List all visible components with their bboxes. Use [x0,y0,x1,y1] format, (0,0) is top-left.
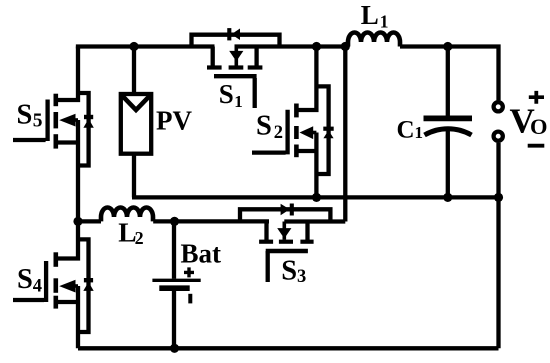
transistor S1 (with bypass diode) [192,28,280,108]
D5 cathode bar [84,115,93,119]
S4 body arrow [73,284,78,288]
svg-text:S: S [281,255,297,286]
S4 gate bar [44,261,48,302]
svg-text:3: 3 [297,267,306,287]
Bat negative plate [159,285,189,291]
S2 body arrow [312,131,316,135]
diode D4 (body diode of S4) [78,239,94,332]
S2 drain lead [297,47,317,111]
S5 body arrow [73,118,78,122]
svg-text:4: 4 [33,276,42,296]
Vo plus terminal [494,102,503,111]
Bat positive plate [152,279,200,282]
Bat minus tick [188,294,192,304]
S3 body connector wire [284,219,345,223]
S3 gate lead [266,251,270,282]
junction S2 drain / top rail [312,42,321,51]
wire L2-battery rail [78,219,269,223]
transistor S5 [13,47,78,222]
battery Bat [152,221,200,348]
S2 channel mid tick [294,126,299,139]
junction S2 source / mid rail [312,193,321,202]
S1 bypass diode cathode bar [227,28,231,40]
PV box [121,94,151,154]
svg-text:2: 2 [135,228,144,248]
D2 triangle [323,130,333,138]
wire top rail left segment (S5 drain to S1 drain) [78,47,215,49]
photovoltaic panel PV [121,47,151,198]
S3 source stub [305,222,309,241]
junction battery top [170,217,179,226]
svg-text:PV: PV [156,106,192,136]
D4 triangle [83,282,93,291]
svg-text:Bat: Bat [181,239,222,269]
wire node-A to S3 vertical [343,47,347,222]
PV bottom lead [132,154,136,198]
Bat plus sign [184,267,194,277]
inductor L2 [101,208,153,222]
junction mid rail / Vo- [494,193,503,202]
S4 gate lead [13,298,44,302]
Bat bottom lead [172,291,176,348]
PV top lead [132,47,136,93]
S1 bypass diode triangle [231,29,240,41]
svg-text:2: 2 [274,123,283,143]
S4 channel bottom tick [53,296,58,309]
S2 gate lead [252,150,286,154]
output terminal circles Vo [494,102,503,348]
S2 channel bottom tick [294,145,299,158]
S3 channel left bar [259,240,273,244]
S1 gate lead [253,78,257,108]
S1 channel right bar [248,65,263,69]
junction battery bottom / bottom rail [170,344,179,353]
S3 bypass diode loop [240,209,330,221]
S3 bypass diode triangle [281,204,290,216]
PV chevron [121,95,151,111]
svg-text:L: L [361,0,379,30]
S5 gate lead [13,138,46,142]
D5 branch wire [78,93,89,166]
junction PV top [129,42,138,51]
svg-text:1: 1 [234,92,243,111]
svg-text:S: S [17,99,33,130]
S1 drain stub [211,47,215,66]
D4 branch wire [78,239,89,332]
S3 channel mid bar [279,240,293,244]
svg-text:1: 1 [415,123,424,142]
S5 gate bar [45,100,49,142]
transistor S3 (with bypass diode) [240,204,345,283]
S2 channel top tick [294,104,299,118]
svg-text:C: C [397,117,415,144]
S1 body arrow [235,47,239,66]
S5 channel bottom tick [53,134,58,148]
S2 gate bar [285,110,289,155]
svg-text:O: O [530,114,548,139]
D4 cathode bar [84,278,93,282]
transistor S2 [252,47,316,198]
diode D2 (body diode of S2) [316,86,333,174]
S1 bypass diode loop [192,35,280,47]
S1 channel mid bar [229,65,244,69]
S5 channel top tick [53,94,58,107]
S5 drain lead [56,47,78,101]
Vo minus terminal [494,132,503,141]
junction S5 source / S4 drain / L2 [73,217,82,226]
capacitor C1 [424,47,473,198]
S3 gate bar [266,249,308,253]
S3 body arrow [282,222,286,240]
D2 branch wire [316,86,328,174]
C1 curved plate [425,129,472,135]
wire mid rail (PV- / S2 source / C1 / Vo-) [132,195,499,199]
S4 channel mid tick [53,278,58,293]
Vo minus lead down right side [496,143,500,348]
junction node A / L1 left [341,42,350,51]
S3 bypass diode cathode bar [290,204,294,216]
svg-text:S: S [256,111,272,142]
inductor L1 [348,33,400,47]
D2 cathode bar [323,127,333,131]
S5 source lead [56,120,78,221]
S1 gate bar [214,74,257,78]
D5 triangle [83,119,93,128]
diode D5 (body diode of S5) [78,93,94,166]
S3 channel right bar [300,240,313,244]
junction C1 bottom / mid rail [443,193,452,202]
junction L1 right / C1 top [443,42,452,51]
S4 drain lead [56,221,78,258]
svg-text:S: S [219,79,234,109]
svg-text:S: S [17,264,33,295]
Vo plus sign [529,91,544,104]
Vo minus sign [528,144,545,148]
svg-text:1: 1 [380,12,389,32]
S3 drain stub [264,222,268,241]
C1 top plate [424,116,473,122]
C1 top lead [446,47,450,116]
svg-text:5: 5 [33,111,43,132]
C1 bottom lead [446,130,450,197]
S1 source stub [254,47,258,66]
Bat top lead [172,221,176,278]
S4 channel top tick [53,252,58,266]
S1 channel left bar [207,65,222,69]
wire bottom rail [78,346,499,350]
S4 source lead [56,286,78,348]
S5 channel mid tick [53,112,58,128]
wire top rail right segment (S1 source to output + corner) [235,47,499,101]
S2 source lead [297,133,317,198]
transistor S4 [13,221,78,348]
